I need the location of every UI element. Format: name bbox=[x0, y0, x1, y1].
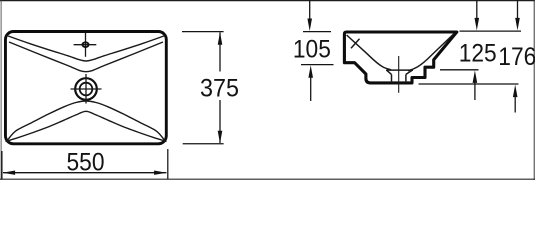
dim 375 dimension line lower bbox=[219, 100, 221, 143]
sink top view outer rim bbox=[5, 32, 166, 144]
basin upper inner curve bbox=[9, 42, 163, 72]
side view drain pipe right wall bbox=[405, 74, 407, 81]
side view bowl bottom line bbox=[386, 69, 413, 71]
dim 375 bottom extension line bbox=[183, 143, 224, 145]
basin lower inner curve bbox=[8, 101, 164, 140]
dim 105 top extension line bbox=[303, 31, 331, 33]
dim 176 up arrow bbox=[513, 85, 518, 98]
rim level extension line bbox=[460, 30, 522, 32]
dim 105 bottom tail line bbox=[310, 75, 312, 101]
border frame top bbox=[0, 0, 535, 2]
dim 550 left arrow bbox=[3, 171, 16, 175]
border frame right bbox=[533, 0, 535, 180]
side view section cut tick bbox=[351, 39, 360, 48]
basin lower outer curve bbox=[6, 111, 167, 141]
side view drain pipe left wall bbox=[391, 74, 393, 81]
dim 105 up arrow bbox=[308, 65, 313, 78]
side view drain centerline bbox=[398, 56, 400, 93]
svg-text:105: 105 bbox=[293, 36, 331, 64]
dim 550 dimension line bbox=[3, 172, 166, 174]
side view outer shell bbox=[344, 32, 456, 83]
dim 176 down arrow bbox=[515, 18, 520, 31]
dim 125 down arrow bbox=[475, 18, 480, 31]
dim 375 top extension line bbox=[182, 31, 224, 33]
side view interior left slope bbox=[347, 35, 391, 70]
side view interior right slope bbox=[408, 34, 454, 71]
dim 125 bottom tail line bbox=[474, 80, 476, 100]
dim 176 bottom extension line bbox=[419, 83, 519, 85]
dim 176 top tail line bbox=[517, 1, 519, 21]
dim 375 down arrow bbox=[218, 131, 223, 144]
dim 375 dimension line upper bbox=[219, 32, 221, 71]
dim 125 top tail line bbox=[476, 1, 478, 21]
dim 375 up arrow bbox=[218, 32, 223, 45]
svg-text:550: 550 bbox=[67, 148, 105, 176]
dim 176 bottom tail line bbox=[514, 94, 516, 113]
svg-text:176: 176 bbox=[498, 43, 535, 71]
border frame left bbox=[0, 0, 2, 180]
dim 105 down arrow bbox=[307, 19, 312, 32]
faucet hole crosshair horizontal bbox=[74, 44, 97, 46]
faucet hole circle bbox=[82, 42, 88, 47]
dim 125 bottom extension line bbox=[440, 69, 479, 71]
drain outer circle bbox=[75, 78, 97, 100]
dim 125 up arrow bbox=[473, 70, 478, 83]
side view drain funnel right bbox=[406, 70, 413, 74]
drain crosshair vertical bbox=[85, 74, 87, 104]
svg-text:125: 125 bbox=[459, 39, 497, 67]
dim 550 right extension line bbox=[167, 149, 169, 179]
svg-text:375: 375 bbox=[200, 75, 239, 103]
dim 550 right arrow bbox=[154, 171, 167, 175]
drain crosshair horizontal bbox=[71, 88, 102, 90]
dim 105 bottom extension line bbox=[301, 64, 334, 66]
drain inner circle bbox=[80, 83, 93, 96]
border frame bottom bbox=[0, 178, 535, 180]
dim 105 top tail line bbox=[309, 1, 311, 22]
dim 550 left extension line bbox=[1, 151, 3, 179]
side view drain funnel left bbox=[386, 70, 391, 74]
faucet hole crosshair vertical bbox=[85, 33, 87, 57]
basin upper outer curve bbox=[8, 36, 164, 61]
